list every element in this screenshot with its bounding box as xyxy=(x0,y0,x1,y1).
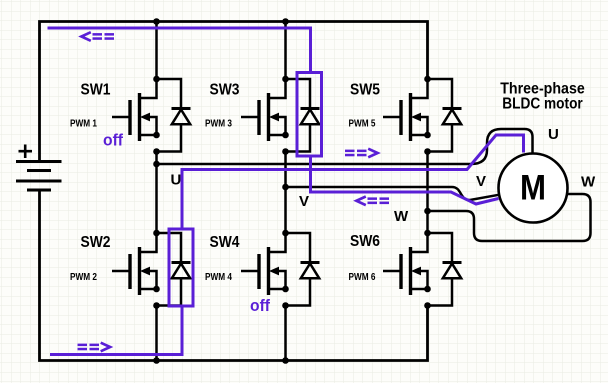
wire: U phase line to motor xyxy=(157,129,533,164)
arrow: current direction bottom rail (right) xyxy=(78,343,111,352)
svg-text:PWM 6: PWM 6 xyxy=(349,271,376,283)
svg-text:PWM 1: PWM 1 xyxy=(70,118,97,130)
wire: V phase column (SW3/SW4 leg) xyxy=(284,22,287,361)
arrow: current direction V line (left) xyxy=(356,197,389,206)
svg-text:SW6: SW6 xyxy=(350,233,380,250)
diode of SW4 xyxy=(282,233,319,309)
node: bottom rail junctions xyxy=(153,357,160,364)
motor M1 circle xyxy=(499,154,568,223)
svg-text:off: off xyxy=(250,296,270,315)
svg-text:PWM 5: PWM 5 xyxy=(349,118,376,130)
svg-text:U: U xyxy=(171,172,182,189)
svg-text:SW1: SW1 xyxy=(81,82,111,99)
svg-text:W: W xyxy=(394,208,409,225)
highlighted current path: SW2 diode to U line to motor (purple) xyxy=(182,135,524,229)
svg-text:V: V xyxy=(476,173,486,190)
node: top rail junctions xyxy=(153,18,160,25)
node: phase taps xyxy=(153,161,160,168)
transistor SW5 xyxy=(383,76,431,141)
svg-text:SW5: SW5 xyxy=(350,82,380,99)
svg-text:SW3: SW3 xyxy=(210,82,240,99)
svg-text:PWM 2: PWM 2 xyxy=(70,271,97,283)
svg-text:V: V xyxy=(299,193,309,210)
svg-text:W: W xyxy=(581,174,596,191)
transistor SW3 xyxy=(241,76,289,141)
svg-text:SW2: SW2 xyxy=(81,234,111,251)
diode of SW1 xyxy=(153,79,190,155)
svg-text:PWM 4: PWM 4 xyxy=(205,271,232,283)
arrow: current direction U line (right) xyxy=(345,149,378,158)
svg-text:M: M xyxy=(520,169,546,208)
highlighted current path: SW3 diode to V line (purple) xyxy=(311,156,499,204)
wire: top supply rail from battery + to SW5 drain xyxy=(40,22,428,161)
wire: W phase column (SW5/SW6 leg) xyxy=(426,152,429,234)
diode of SW6 xyxy=(424,233,461,309)
diode of SW3 xyxy=(282,79,319,155)
wire: V phase line to motor xyxy=(286,187,499,200)
svg-text:SW4: SW4 xyxy=(210,234,240,251)
diode of SW2 xyxy=(153,233,190,309)
svg-text:BLDC motor: BLDC motor xyxy=(502,96,583,113)
transistor SW6 xyxy=(383,230,431,295)
highlighted current path: top rail (purple) xyxy=(48,28,311,73)
wire: U phase column (SW1/SW2 leg) xyxy=(155,22,158,361)
transistor SW2 xyxy=(112,230,160,295)
wire: bottom return rail from battery - to SW6 source xyxy=(40,191,428,361)
battery BT1 xyxy=(16,145,62,191)
arrow: current direction top rail (left) xyxy=(81,32,114,41)
svg-text:PWM 3: PWM 3 xyxy=(205,118,232,130)
svg-text:U: U xyxy=(548,126,559,143)
svg-text:off: off xyxy=(103,131,123,150)
transistor SW1 xyxy=(112,76,160,141)
highlight box around SW3 diode xyxy=(297,73,322,157)
highlight box around SW2 diode xyxy=(169,229,193,306)
transistor SW4 xyxy=(241,230,289,295)
diode of SW5 xyxy=(424,79,461,155)
highlighted current path: bottom rail into SW2 diode (purple) xyxy=(50,306,182,355)
wire: W phase line to motor (routed under motor) xyxy=(428,194,591,241)
